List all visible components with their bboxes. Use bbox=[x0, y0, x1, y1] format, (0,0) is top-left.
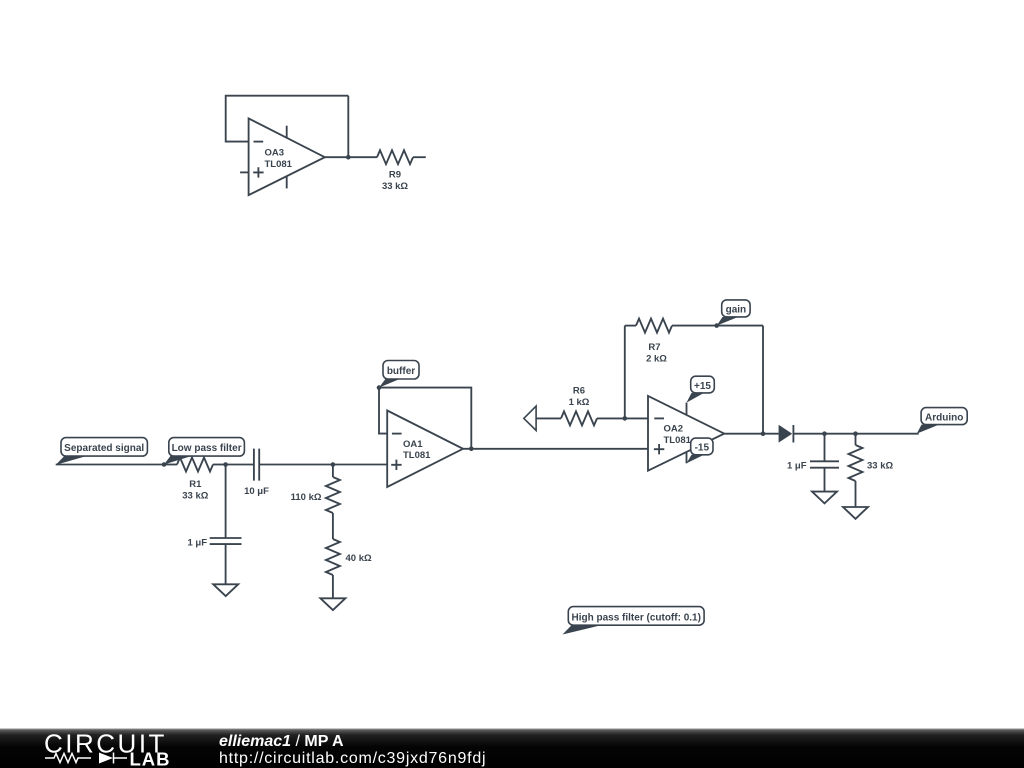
flag -15 bbox=[687, 438, 714, 463]
resistor 110 kOhm bbox=[291, 465, 340, 514]
wire OA1 output to OA2 plus bbox=[463, 448, 648, 450]
node OA1 output junction bbox=[469, 447, 474, 452]
wire to OA1 plus input bbox=[333, 464, 387, 466]
capacitor C 10 uF bbox=[226, 449, 333, 497]
node input junction bbox=[162, 462, 167, 467]
flag gain bbox=[717, 300, 750, 326]
svg-text:gain: gain bbox=[726, 305, 747, 316]
node OA2 output junction bbox=[761, 431, 766, 436]
ground G3 bbox=[812, 492, 837, 504]
svg-text:TL081: TL081 bbox=[403, 450, 431, 461]
footer bar bbox=[0, 729, 1024, 768]
node output cap junction bbox=[822, 431, 827, 436]
svg-text:http://circuitlab.com/c39jxd76: http://circuitlab.com/c39jxd76n9fdj bbox=[219, 750, 486, 767]
wire OA3 output bbox=[325, 156, 377, 158]
resistor 40 kOhm bbox=[326, 513, 372, 598]
svg-text:OA2: OA2 bbox=[664, 424, 684, 435]
resistor R6 bbox=[536, 386, 648, 426]
flag Separated signal bbox=[56, 438, 148, 465]
capacitor C 1 uF output bbox=[787, 434, 839, 492]
svg-text:-15: -15 bbox=[695, 443, 710, 454]
svg-text:Separated signal: Separated signal bbox=[64, 443, 144, 454]
flag +15 bbox=[687, 376, 715, 402]
node OA3 output junction bbox=[346, 155, 351, 160]
svg-text:10 μF: 10 μF bbox=[244, 486, 269, 497]
svg-text:1 kΩ: 1 kΩ bbox=[569, 397, 590, 408]
svg-text:R7: R7 bbox=[648, 342, 660, 353]
node output res junction bbox=[853, 431, 858, 436]
node OA2 minus junction bbox=[623, 416, 628, 421]
svg-text:+15: +15 bbox=[694, 381, 711, 392]
wire input to R1 bbox=[56, 464, 164, 466]
svg-text:TL081: TL081 bbox=[265, 159, 293, 170]
op-amp U OA3 bbox=[240, 118, 325, 195]
wire OA3 feedback loop bbox=[226, 96, 349, 142]
wire OA3 output riser bbox=[347, 96, 349, 158]
node R1 / C1 junction bbox=[223, 462, 228, 467]
svg-text:40 kΩ: 40 kΩ bbox=[346, 553, 372, 564]
svg-text:Arduino: Arduino bbox=[925, 412, 963, 423]
wire OA1 feedback loop bbox=[379, 388, 471, 449]
resistor R1 bbox=[164, 458, 226, 502]
svg-text:elliemac1 / MP A: elliemac1 / MP A bbox=[219, 733, 344, 750]
node OA1 feedback corner bbox=[377, 385, 382, 390]
ground G2 bbox=[320, 598, 345, 610]
wire OA2 output bbox=[724, 433, 778, 435]
svg-text:OA3: OA3 bbox=[265, 148, 285, 159]
svg-text:33 kΩ: 33 kΩ bbox=[382, 181, 408, 192]
node gain junction bbox=[714, 323, 719, 328]
ground G1 bbox=[213, 584, 238, 596]
diode D1 bbox=[779, 425, 794, 443]
flag High pass filter note bbox=[563, 607, 705, 635]
svg-text:R9: R9 bbox=[389, 170, 401, 181]
svg-text:TL081: TL081 bbox=[664, 435, 692, 446]
resistor R7 bbox=[625, 319, 763, 365]
svg-text:Low pass filter: Low pass filter bbox=[172, 443, 242, 454]
flag Low pass filter bbox=[164, 438, 244, 465]
op-amp U OA2 bbox=[648, 396, 724, 471]
wire diode to output bbox=[793, 433, 918, 435]
flag input arrow bbox=[524, 406, 536, 430]
svg-text:buffer: buffer bbox=[387, 366, 415, 377]
svg-text:110 kΩ: 110 kΩ bbox=[291, 492, 322, 503]
svg-text:33 kΩ: 33 kΩ bbox=[182, 491, 208, 502]
logo schematic squiggle bbox=[45, 754, 91, 763]
resistor 33 kOhm output bbox=[849, 434, 894, 507]
flag buffer bbox=[379, 361, 419, 388]
op-amp U OA1 bbox=[387, 411, 463, 488]
node divider junction bbox=[331, 462, 336, 467]
svg-text:R1: R1 bbox=[189, 479, 202, 490]
ground G4 bbox=[843, 507, 868, 519]
svg-text:2 kΩ: 2 kΩ bbox=[646, 354, 667, 365]
flag Arduino bbox=[917, 408, 967, 434]
svg-text:LAB: LAB bbox=[130, 749, 171, 768]
svg-text:R6: R6 bbox=[573, 386, 585, 397]
wire feedback drop bbox=[762, 326, 764, 434]
svg-text:OA1: OA1 bbox=[403, 439, 423, 450]
wire R7 riser bbox=[624, 326, 626, 419]
svg-text:1 μF: 1 μF bbox=[787, 461, 807, 472]
capacitor C 1 uF shunt bbox=[187, 465, 241, 585]
resistor R9 bbox=[377, 150, 426, 192]
svg-text:High pass filter (cutoff: 0.1): High pass filter (cutoff: 0.1) bbox=[571, 612, 700, 623]
svg-text:1 μF: 1 μF bbox=[187, 538, 207, 549]
svg-text:33 kΩ: 33 kΩ bbox=[867, 461, 893, 472]
